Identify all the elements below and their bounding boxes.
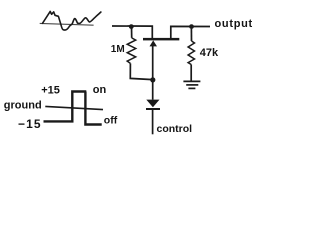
svg-text:on: on bbox=[93, 84, 107, 96]
svg-text:−15: −15 bbox=[18, 117, 42, 131]
svg-text:control: control bbox=[157, 123, 193, 135]
svg-text:off: off bbox=[104, 114, 118, 126]
svg-text:output: output bbox=[215, 18, 253, 30]
svg-text:1M: 1M bbox=[111, 44, 125, 55]
svg-text:+15: +15 bbox=[41, 84, 60, 96]
svg-text:ground: ground bbox=[4, 100, 42, 112]
svg-text:47k: 47k bbox=[200, 47, 219, 59]
